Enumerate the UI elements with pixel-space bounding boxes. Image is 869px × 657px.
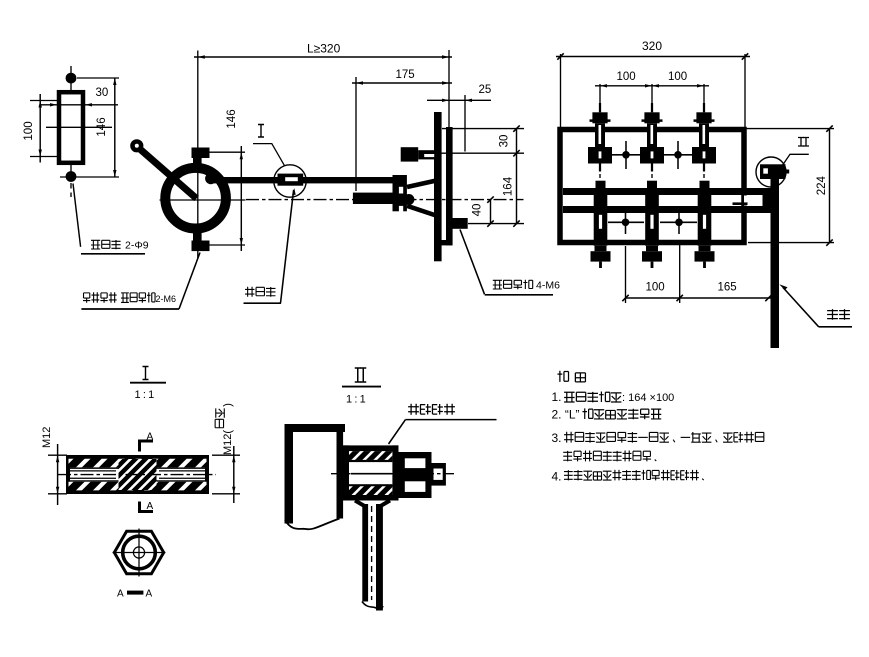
svg-text:100: 100 (646, 282, 665, 294)
dimension 100 165 (bottom) (625, 246, 627, 303)
detail I title (143, 367, 149, 380)
detail I centerline (58, 474, 216, 476)
adjusting rod right segment (303, 177, 393, 183)
extension line (x465) (464, 95, 466, 152)
label liangan (connecting rod) (827, 309, 838, 320)
frame edge gap between bars (744, 196, 753, 206)
rod thick end block (353, 193, 393, 204)
leader: mounting screws 4-M6 (460, 230, 485, 295)
extension line (y223.6) (468, 223, 524, 225)
label caozuo shoubing anzhuang luoding 2-M6 (83, 293, 90, 303)
crank pin (detail II) (760, 164, 786, 179)
left view: top mounting hole (filled) (66, 73, 77, 84)
dimension 25 (427, 99, 491, 101)
switch base edge (446, 127, 453, 245)
adjusting rod left segment (209, 177, 278, 183)
label: anzhuang luoding 4-M6 (493, 280, 502, 289)
left view: bottom mounting hole (filled) (66, 171, 77, 182)
detail II centerline (331, 473, 454, 475)
svg-text:): ) (222, 403, 234, 407)
svg-text:1 : 1: 1 : 1 (135, 389, 155, 401)
detail I bore lines (68, 467, 207, 469)
left view: horizontal centerline (46, 126, 112, 128)
svg-text:L≥320: L≥320 (307, 42, 341, 56)
svg-text:320: 320 (642, 39, 662, 53)
detail II title (355, 368, 361, 382)
crank corner block (763, 188, 773, 213)
svg-text:M12(: M12( (222, 430, 234, 455)
svg-text:4.: 4. (552, 470, 562, 484)
detail I thread dashed lines (69, 460, 206, 462)
dimension 320 (560, 54, 562, 127)
svg-text:: 164 ×100: : 164 ×100 (622, 392, 674, 404)
dimension 100 (left) (30, 100, 58, 102)
label tiaojiegan (adjusting rod) (245, 287, 254, 297)
dimension 146 (main view) (210, 151, 246, 153)
switch mounting plate (edge view) (434, 112, 442, 261)
extension line (y153.2) (438, 152, 524, 154)
detail II pin centerline solid (351, 473, 392, 475)
left view: vertical centerline (70, 66, 72, 179)
hex nut section A-A (114, 531, 163, 573)
upper mounting screw (side) (401, 147, 419, 161)
connecting rod (vertical) (771, 179, 780, 349)
svg-text:164: 164 (502, 176, 514, 196)
dimension 175 (352, 82, 452, 84)
label I with leader (258, 125, 264, 138)
dimension 164 (516, 153, 518, 223)
detail II end shaft (430, 463, 446, 486)
detail I rod body outline (68, 457, 207, 492)
switch middle bar B (563, 206, 772, 213)
dimension 30 (right) (516, 129, 518, 154)
svg-text:A: A (147, 501, 154, 512)
svg-text:165: 165 (718, 282, 737, 294)
dimension L>=320 (194, 56, 452, 58)
handle top mounting tab (192, 148, 210, 159)
svg-text:146: 146 (226, 109, 238, 128)
small step block (733, 202, 748, 205)
svg-text:2-Φ9: 2-Φ9 (125, 240, 149, 252)
detail circle I (274, 165, 306, 197)
leader: mounting holes (73, 184, 81, 247)
main view: vertical extension line through handle (197, 51, 199, 259)
main view: horizontal center line (dash-dot) (246, 199, 524, 201)
svg-text:40: 40 (472, 204, 484, 217)
lower terminal bolts (3) (596, 181, 606, 188)
extension line (x356) (355, 77, 357, 191)
svg-text:100: 100 (23, 121, 35, 140)
svg-text:25: 25 (479, 84, 492, 96)
detail II frame plate (285, 424, 294, 524)
dimension 146 (left view) (77, 77, 119, 79)
svg-text:A: A (146, 589, 153, 600)
note line 4 (563, 451, 572, 462)
notes title shuoming (557, 371, 568, 382)
handle lever (137, 147, 197, 199)
clevis block (393, 175, 407, 211)
lower mounting screw block (453, 218, 468, 229)
rod joint dot at handle (205, 173, 216, 184)
operating handle ring (165, 168, 226, 229)
clevis fork arms (407, 180, 438, 187)
detail circle II (756, 157, 786, 187)
svg-text:A: A (147, 432, 154, 443)
svg-text:2. “L”: 2. “L” (552, 408, 580, 422)
dimension 30 (plate width) (40, 104, 118, 106)
svg-text:100: 100 (617, 71, 636, 83)
detail II connecting rod (362, 504, 368, 602)
dimension M12 left-hand (right) (215, 403, 234, 455)
adjusting rod coupler (detail I) (278, 174, 304, 186)
svg-text:3.: 3. (552, 431, 562, 445)
section marks A-A (140, 441, 154, 452)
svg-text:100: 100 (668, 71, 687, 83)
detail I bore minor lines (70, 470, 116, 472)
switch frame outline (560, 130, 744, 243)
handle knob (130, 139, 143, 152)
svg-text:175: 175 (396, 69, 415, 81)
dimension 40 (490, 200, 492, 224)
upper terminal bolts (3) (599, 103, 601, 112)
svg-text:224: 224 (816, 176, 828, 196)
handle bottom mounting tab (193, 227, 202, 242)
left view: mounting plate outline (59, 92, 83, 163)
svg-text:1 : 1: 1 : 1 (346, 394, 366, 406)
extension line (y128.6) (442, 128, 524, 130)
switch middle bar A (563, 188, 763, 195)
svg-text:2-M6: 2-M6 (156, 294, 177, 304)
svg-text:30: 30 (499, 135, 511, 148)
detail II nut (399, 452, 432, 498)
upper contact dots (622, 151, 630, 159)
dimension 100 100 (top) (599, 84, 601, 111)
svg-text:A: A (117, 589, 124, 600)
svg-text:30: 30 (96, 87, 109, 99)
dimension 224 (747, 128, 835, 130)
lower contact dots (622, 219, 630, 227)
detail II pin cylinder (343, 445, 399, 451)
label linghuo zhuandong (free rotation) (408, 404, 419, 415)
label: anzhuangkong 2-dia9 (91, 240, 100, 249)
main view: horizontal line through handle (160, 199, 246, 201)
ball joint (403, 194, 414, 205)
svg-text:4-M6: 4-M6 (536, 280, 560, 292)
svg-text:146: 146 (96, 117, 108, 136)
svg-text:M12: M12 (41, 427, 53, 448)
svg-text:1.: 1. (552, 390, 562, 404)
label II with leader (798, 138, 804, 147)
extension line right (x449) (448, 50, 450, 128)
